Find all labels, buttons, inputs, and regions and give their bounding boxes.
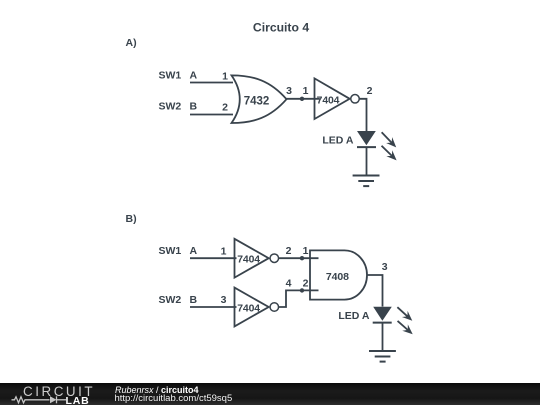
svg-text:2: 2 <box>286 245 292 257</box>
inverter U2 7404 (section A) <box>315 78 360 119</box>
OR gate U1 7432 <box>232 75 287 123</box>
LED A light arrows (section B) <box>395 304 416 337</box>
wire from OR output to inverter input <box>287 98 320 100</box>
ground (section B) <box>369 351 396 362</box>
footer bar <box>0 383 540 405</box>
svg-text:1: 1 <box>222 70 228 82</box>
LED A light arrows (section A) <box>379 129 400 163</box>
inverter U3 7404 (section B top) <box>235 239 279 278</box>
wire from U4 output up to AND gate input <box>278 290 318 307</box>
svg-text:7404: 7404 <box>237 255 260 266</box>
AND gate U5 7408 <box>310 250 367 299</box>
svg-text:SW1: SW1 <box>159 70 182 82</box>
svg-text:4: 4 <box>286 277 292 289</box>
wire A input to inverter U3 <box>190 257 237 259</box>
svg-text:3: 3 <box>382 261 388 273</box>
svg-text:3: 3 <box>286 85 292 97</box>
svg-text:LAB: LAB <box>66 395 90 405</box>
junction node 1 <box>300 97 304 101</box>
junction node 1 (section B) <box>300 256 304 260</box>
ground (section A) <box>353 176 380 187</box>
svg-text:1: 1 <box>221 246 227 258</box>
svg-text:SW2: SW2 <box>159 101 182 113</box>
svg-text:A: A <box>190 245 198 257</box>
svg-text:1: 1 <box>303 85 309 97</box>
svg-text:7404: 7404 <box>237 303 260 314</box>
CircuitLab logo <box>0 383 110 405</box>
LED A (section B) <box>338 307 391 323</box>
LED A (section A) <box>322 131 376 147</box>
svg-text:7408: 7408 <box>326 271 349 283</box>
wire from inverter output down to LED A <box>359 99 366 131</box>
svg-text:SW2: SW2 <box>159 294 182 306</box>
wire from U3 output to AND gate input <box>278 257 318 259</box>
svg-text:LED A: LED A <box>338 310 370 322</box>
footer url line <box>115 394 233 404</box>
wire B input to inverter U4 <box>190 306 237 308</box>
svg-text:B: B <box>190 101 198 113</box>
svg-text:B): B) <box>126 213 137 225</box>
svg-text:2: 2 <box>367 85 373 97</box>
svg-text:A): A) <box>126 37 137 49</box>
footer author/title line <box>115 385 199 395</box>
svg-text:Circuito 4: Circuito 4 <box>253 21 309 35</box>
wire from LED A cathode to ground (section B) <box>382 323 384 351</box>
wire B input to OR gate <box>190 114 233 116</box>
svg-text:LED A: LED A <box>322 135 354 147</box>
wire A input to OR gate <box>190 82 233 84</box>
svg-text:2: 2 <box>222 102 228 114</box>
junction node 2 (section B) <box>300 288 304 292</box>
wire from AND output down to LED A (section B) <box>367 275 382 307</box>
inverter U4 7404 (section B bottom) <box>235 288 279 327</box>
svg-text:7404: 7404 <box>317 96 340 107</box>
svg-text:3: 3 <box>221 294 227 306</box>
svg-text:2: 2 <box>303 277 309 289</box>
wire from LED A cathode to ground (section A) <box>366 147 368 175</box>
svg-text:B: B <box>190 294 198 306</box>
svg-text:7432: 7432 <box>244 95 270 107</box>
svg-text:A: A <box>190 70 198 82</box>
svg-text:SW1: SW1 <box>159 245 182 257</box>
svg-text:1: 1 <box>303 245 309 257</box>
